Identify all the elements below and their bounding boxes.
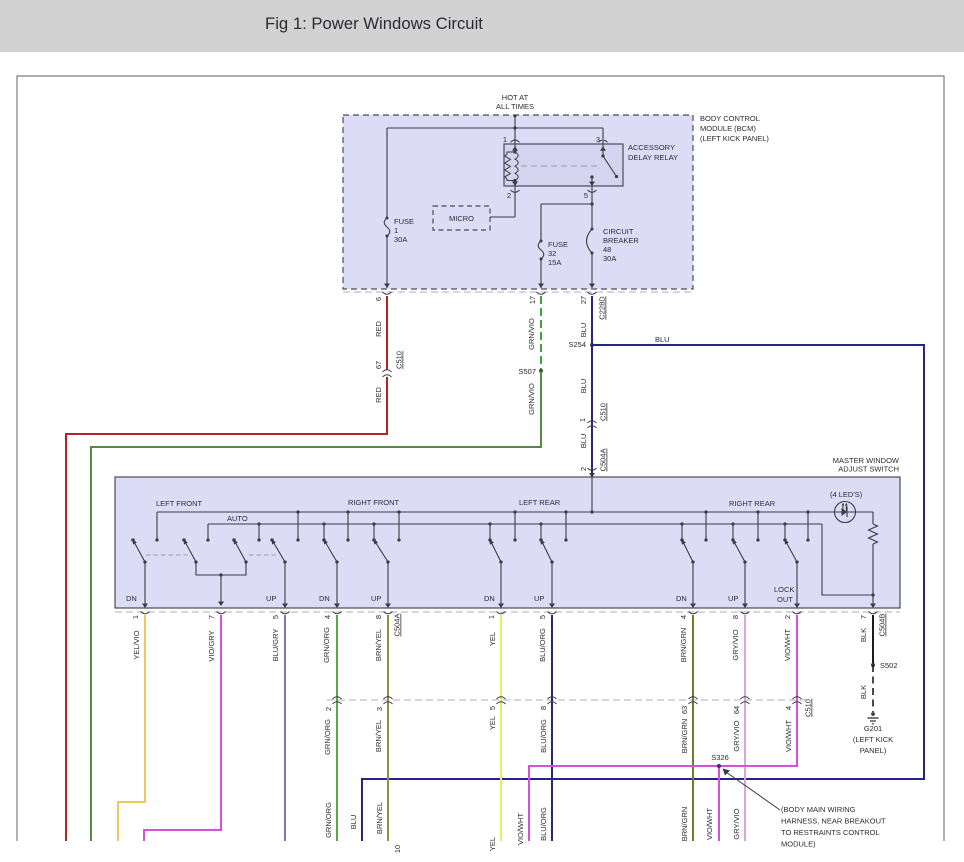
- svg-text:32: 32: [548, 249, 556, 258]
- switch output drop at 388: [385, 562, 391, 608]
- svg-text:YEL: YEL: [488, 837, 497, 851]
- svg-text:BREAKER: BREAKER: [603, 236, 639, 245]
- switch bottom connector line: [115, 611, 900, 613]
- svg-text:G201: G201: [864, 724, 882, 733]
- svg-text:5: 5: [538, 615, 547, 619]
- wire BLU/ORG pin 5: [538, 612, 557, 842]
- svg-text:5: 5: [271, 615, 280, 619]
- wire GRN/ORG pin 4: [322, 612, 342, 842]
- svg-text:VIO/WHT: VIO/WHT: [705, 808, 714, 840]
- svg-text:YEL: YEL: [488, 716, 497, 730]
- RR up switch: [731, 538, 746, 563]
- svg-text:S502: S502: [880, 661, 898, 670]
- svg-text:BLU/GRY: BLU/GRY: [271, 629, 280, 662]
- LED indicator: [835, 502, 856, 523]
- svg-text:BRN/GRN: BRN/GRN: [679, 628, 688, 663]
- svg-text:S254: S254: [568, 340, 586, 349]
- svg-text:DN: DN: [126, 594, 137, 603]
- svg-text:S507: S507: [518, 367, 536, 376]
- circuit breaker CB48 30A: [587, 227, 640, 288]
- splice S254: [568, 340, 594, 349]
- svg-text:ALL TIMES: ALL TIMES: [496, 102, 534, 111]
- svg-text:BRN/YEL: BRN/YEL: [374, 720, 383, 752]
- top bus: [155, 510, 837, 541]
- svg-text:GRN/ORG: GRN/ORG: [322, 627, 331, 663]
- svg-text:DN: DN: [319, 594, 330, 603]
- svg-text:27: 27: [579, 296, 588, 304]
- top bus contact at 808: [806, 510, 809, 541]
- svg-text:6: 6: [374, 297, 383, 301]
- wire BLK dashed to ground: [859, 665, 873, 712]
- svg-text:2: 2: [507, 191, 511, 200]
- svg-text:DN: DN: [676, 594, 687, 603]
- svg-text:HOT AT: HOT AT: [502, 93, 529, 102]
- svg-text:GRN/VIO: GRN/VIO: [527, 383, 536, 415]
- wire GRN/VIO solid run to left side: [91, 371, 541, 841]
- wire VIO/GRY pin 7: [144, 612, 226, 842]
- svg-text:YEL: YEL: [488, 632, 497, 646]
- svg-text:8: 8: [731, 615, 740, 619]
- svg-text:RIGHT REAR: RIGHT REAR: [729, 499, 776, 508]
- svg-text:LOCK: LOCK: [774, 585, 794, 594]
- svg-text:(LEFT KICK PANEL): (LEFT KICK PANEL): [700, 134, 769, 143]
- left front floating contacts: [131, 538, 273, 541]
- svg-text:4: 4: [679, 615, 688, 619]
- callout text: [781, 805, 886, 849]
- svg-text:GRY/VIO: GRY/VIO: [732, 720, 741, 751]
- top bus contact at 298: [296, 510, 299, 541]
- feed into switch box: [591, 477, 593, 512]
- relay coil: [505, 146, 519, 186]
- svg-text:10: 10: [393, 845, 402, 853]
- relay pin 3 and switch: [596, 135, 618, 178]
- mechanical linkage dashes: [146, 554, 276, 556]
- DN UP labels: [126, 594, 738, 603]
- BCM pin 17: [528, 292, 546, 304]
- LF auto-up switch: [232, 538, 247, 563]
- svg-text:BLU/ORG: BLU/ORG: [539, 719, 548, 753]
- svg-text:GRY/VIO: GRY/VIO: [731, 629, 740, 660]
- fuse F1 30A: [384, 217, 414, 289]
- svg-text:C504A: C504A: [599, 449, 608, 472]
- top bus contact at 515: [513, 510, 516, 541]
- wire BRN/GRN pin 4: [679, 612, 698, 842]
- svg-text:1: 1: [131, 615, 140, 619]
- svg-text:MODULE (BCM): MODULE (BCM): [700, 124, 756, 133]
- svg-text:LEFT REAR: LEFT REAR: [519, 498, 561, 507]
- auto bus end return: [822, 524, 875, 597]
- top bus contact at 566: [564, 510, 567, 541]
- master window adjust switch label: [833, 456, 900, 474]
- svg-text:1: 1: [578, 418, 587, 422]
- svg-text:FUSE: FUSE: [548, 240, 568, 249]
- svg-text:1: 1: [503, 135, 507, 144]
- wire YEL pin 1: [487, 612, 506, 852]
- svg-text:OUT: OUT: [777, 595, 793, 604]
- svg-text:RIGHT FRONT: RIGHT FRONT: [348, 498, 400, 507]
- svg-text:30A: 30A: [394, 235, 407, 244]
- auto bus contact at 490: [488, 522, 491, 541]
- switch output drop at 285: [282, 562, 288, 608]
- lockout label: [774, 585, 794, 604]
- auto bus contact at 324: [322, 522, 325, 541]
- svg-text:VIO/WHT: VIO/WHT: [783, 629, 792, 661]
- auto bus contact at 374: [372, 522, 375, 541]
- svg-text:BRN/GRN: BRN/GRN: [680, 719, 689, 754]
- svg-text:S326: S326: [711, 753, 729, 762]
- svg-text:63: 63: [680, 706, 689, 714]
- wire RED lower run to left side: [66, 377, 387, 841]
- svg-text:64: 64: [732, 706, 741, 714]
- switch output drop at 501: [498, 562, 504, 608]
- LF auto-down switch: [182, 538, 197, 563]
- fuse F32 15A: [538, 240, 568, 289]
- svg-text:C510: C510: [395, 351, 404, 369]
- svg-text:AUTO: AUTO: [227, 514, 248, 523]
- svg-text:ACCESSORY: ACCESSORY: [628, 143, 675, 152]
- svg-text:GRN/ORG: GRN/ORG: [323, 719, 332, 755]
- svg-text:VIO/WHT: VIO/WHT: [784, 720, 793, 752]
- svg-text:67: 67: [374, 361, 383, 369]
- svg-text:FUSE: FUSE: [394, 217, 414, 226]
- top bus contact at 706: [704, 510, 707, 541]
- svg-text:BLU: BLU: [579, 434, 588, 449]
- BCM internal bus: [387, 126, 603, 218]
- svg-text:7: 7: [207, 615, 216, 619]
- resistor R1: [869, 524, 878, 544]
- wire BLU/GRY pin 5: [271, 612, 290, 842]
- svg-text:RED: RED: [374, 387, 383, 403]
- wire VIO/WHT pin 2 connector C510: [516, 612, 813, 846]
- svg-text:BLU/ORG: BLU/ORG: [539, 807, 548, 841]
- splice S502: [871, 661, 898, 670]
- svg-text:HARNESS, NEAR BREAKOUT: HARNESS, NEAR BREAKOUT: [781, 817, 886, 826]
- callout leader: [723, 769, 781, 811]
- LF up switch: [270, 538, 286, 563]
- relay switch output pin 5: [589, 175, 595, 186]
- svg-text:GRY/VIO: GRY/VIO: [732, 808, 741, 839]
- svg-text:4: 4: [784, 706, 793, 710]
- svg-text:7: 7: [859, 615, 868, 619]
- splice S326 and branch: [705, 753, 729, 841]
- LR up switch: [539, 538, 553, 563]
- wire YEL/VIO pin 1: [118, 612, 150, 842]
- auto bus contact at 541: [539, 522, 542, 541]
- wire BLU from pin 27: [591, 296, 593, 345]
- svg-text:YEL/VIO: YEL/VIO: [132, 630, 141, 659]
- svg-text:MICRO: MICRO: [449, 214, 474, 223]
- svg-text:4: 4: [323, 615, 332, 619]
- top bus contact at 399: [397, 510, 400, 541]
- wire LED to resistor: [856, 512, 874, 524]
- svg-text:8: 8: [539, 706, 548, 710]
- LR down switch: [488, 538, 502, 563]
- svg-text:BRN/YEL: BRN/YEL: [375, 802, 384, 834]
- wire BLK pin 7 connector C504B: [859, 612, 887, 666]
- svg-text:5: 5: [584, 191, 588, 200]
- wire resistor to exit: [870, 544, 876, 608]
- svg-text:C510: C510: [804, 699, 813, 717]
- svg-text:BLK: BLK: [859, 628, 868, 642]
- LF down switch: [131, 538, 146, 563]
- svg-text:5: 5: [488, 706, 497, 710]
- svg-text:BRN/GRN: BRN/GRN: [680, 807, 689, 842]
- svg-text:Fig 1: Power Windows Circuit: Fig 1: Power Windows Circuit: [265, 14, 483, 33]
- lockout switch: [783, 538, 798, 563]
- master window adjust switch box: [115, 477, 900, 608]
- wire GRN/VIO dashed segment: [540, 296, 542, 369]
- wire micro to relay pin 2: [490, 216, 515, 218]
- svg-text:(LEFT KICK: (LEFT KICK: [853, 735, 893, 744]
- svg-text:PANEL): PANEL): [860, 746, 887, 755]
- BCM module box: [343, 115, 693, 289]
- svg-text:C504B: C504B: [878, 614, 887, 637]
- BCM bottom connector line: [343, 291, 693, 293]
- top bus contact at 758: [756, 510, 759, 541]
- HOT AT ALL TIMES feed: [496, 93, 534, 141]
- svg-text:BLU: BLU: [655, 335, 670, 344]
- svg-text:GRN/VIO: GRN/VIO: [527, 318, 536, 350]
- BCM label: [700, 114, 769, 143]
- svg-text:VIO/WHT: VIO/WHT: [516, 813, 525, 845]
- svg-text:BRN/YEL: BRN/YEL: [374, 629, 383, 661]
- wire GRY/VIO pin 8: [731, 612, 750, 842]
- svg-text:DELAY RELAY: DELAY RELAY: [628, 153, 678, 162]
- svg-text:ADJUST SWITCH: ADJUST SWITCH: [838, 465, 899, 474]
- switch output drop at 145: [142, 562, 148, 608]
- wire RED pin6 upper: [386, 296, 388, 370]
- connector C510 on RED: [374, 351, 404, 377]
- svg-text:VIO/GRY: VIO/GRY: [207, 630, 216, 661]
- relay pin 5 node: [584, 186, 597, 229]
- svg-text:MODULE): MODULE): [781, 840, 816, 849]
- RR down switch: [680, 538, 694, 563]
- svg-text:(4 LED'S): (4 LED'S): [830, 490, 863, 499]
- relay label: [628, 143, 678, 162]
- relay pin 1: [503, 135, 520, 152]
- wire BRN/YEL pin 8 connector C504A: [374, 612, 402, 854]
- svg-text:15A: 15A: [548, 258, 561, 267]
- svg-text:BLU/ORG: BLU/ORG: [538, 628, 547, 662]
- svg-text:BLU: BLU: [579, 323, 588, 338]
- top bus contact at 348: [346, 510, 349, 541]
- auto bus contact at 259: [257, 522, 260, 541]
- BCM pin 6: [374, 292, 392, 301]
- second connector line: [327, 699, 812, 701]
- svg-text:8: 8: [374, 615, 383, 619]
- svg-text:1: 1: [394, 226, 398, 235]
- relay armature dashed link: [521, 165, 600, 167]
- svg-text:LEFT FRONT: LEFT FRONT: [156, 499, 203, 508]
- svg-text:BLU: BLU: [349, 815, 358, 830]
- svg-text:UP: UP: [266, 594, 276, 603]
- svg-text:DN: DN: [484, 594, 495, 603]
- connector C504A entry pin 2: [579, 449, 608, 478]
- wire BLU down to switch: [591, 345, 593, 477]
- svg-text:BODY CONTROL: BODY CONTROL: [700, 114, 760, 123]
- switch output drop at 552: [549, 562, 555, 608]
- auto bus contact at 733: [731, 522, 734, 541]
- wire pin5 to fuse 32: [541, 204, 592, 241]
- micro module: [433, 206, 490, 230]
- svg-text:UP: UP: [534, 594, 544, 603]
- svg-text:C228D: C228D: [598, 296, 607, 320]
- switch output drop at 337: [334, 562, 340, 608]
- auto bus contact at 785: [783, 522, 786, 541]
- switch output drop at 797: [794, 562, 800, 608]
- svg-text:2: 2: [324, 707, 333, 711]
- svg-text:CIRCUIT: CIRCUIT: [603, 227, 634, 236]
- switch output drop at 693: [690, 562, 696, 608]
- switch output drop at 745: [742, 562, 748, 608]
- title bar: [0, 0, 964, 52]
- svg-text:UP: UP: [371, 594, 381, 603]
- svg-text:BLK: BLK: [859, 685, 868, 699]
- svg-text:2: 2: [579, 467, 588, 471]
- svg-text:RED: RED: [374, 321, 383, 337]
- svg-text:2: 2: [783, 615, 792, 619]
- wire BLU right loop: [362, 345, 924, 841]
- connector C510 on BLU: [578, 403, 608, 428]
- svg-text:3: 3: [596, 135, 600, 144]
- svg-text:1: 1: [487, 615, 496, 619]
- BCM pin 27 connector C228D: [579, 292, 607, 320]
- auto bus contact at 682: [680, 522, 683, 541]
- RF up switch: [372, 538, 389, 563]
- svg-text:GRN/ORG: GRN/ORG: [324, 802, 333, 838]
- svg-text:3: 3: [375, 707, 384, 711]
- relay pin 2: [507, 186, 520, 217]
- svg-text:(BODY MAIN WIRING: (BODY MAIN WIRING: [781, 805, 856, 814]
- svg-text:C510: C510: [599, 403, 608, 421]
- ground G201: [853, 712, 893, 755]
- auto bus: [206, 524, 822, 542]
- auto output bracket: [196, 562, 246, 606]
- RF down switch: [322, 538, 338, 563]
- svg-text:BLU: BLU: [579, 379, 588, 394]
- svg-text:C504A: C504A: [393, 614, 402, 637]
- splice S507: [518, 367, 543, 376]
- accessory delay relay U1: [504, 144, 623, 186]
- svg-text:17: 17: [528, 296, 537, 304]
- svg-text:48: 48: [603, 245, 611, 254]
- svg-text:TO RESTRAINTS CONTROL: TO RESTRAINTS CONTROL: [781, 828, 880, 837]
- svg-text:30A: 30A: [603, 254, 616, 263]
- svg-text:UP: UP: [728, 594, 738, 603]
